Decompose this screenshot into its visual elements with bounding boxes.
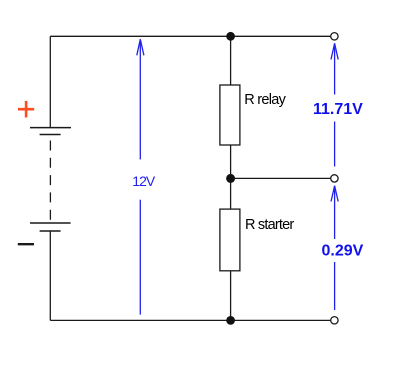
arrow 0.29V shaft lower	[334, 262, 336, 310]
label R starter	[245, 217, 294, 233]
junction dot top node A	[226, 32, 235, 41]
arrow 12V head	[137, 39, 144, 55]
wire left vertical lower (battery - to bottom wire)	[49, 231, 51, 320]
junction dot middle node B	[226, 174, 235, 183]
terminal circle bottom	[331, 317, 338, 324]
arrow 0.29V shaft upper	[334, 186, 336, 239]
junction dot bottom node C	[226, 316, 235, 325]
svg-text:11.71V: 11.71V	[313, 101, 363, 118]
battery B1 cell2 short plate	[40, 230, 61, 232]
svg-text:12V: 12V	[132, 173, 156, 189]
terminal circle middle	[331, 175, 338, 182]
label 0.29V	[322, 243, 364, 260]
svg-text:R relay: R relay	[244, 92, 286, 108]
label 12V	[132, 173, 156, 189]
arrow 12V shaft upper	[139, 39, 141, 159]
wire from R starter down to bottom node	[230, 271, 232, 321]
wire between R relay and R starter (through node B)	[230, 145, 232, 210]
wire top horizontal (battery + to top terminal)	[50, 35, 330, 37]
arrow 11.71V shaft upper	[334, 43, 336, 94]
wire from top node down to R relay	[230, 36, 232, 85]
resistor R starter	[220, 209, 240, 271]
wire bottom horizontal	[50, 319, 330, 321]
label R relay	[244, 92, 286, 108]
battery B1 cell1 short plate	[40, 134, 61, 136]
label 11.71V	[313, 101, 363, 118]
svg-text:R starter: R starter	[245, 217, 294, 233]
wire middle horizontal (node B to middle terminal)	[231, 177, 331, 179]
battery B1 cell2 long plate	[30, 222, 71, 224]
resistor R relay	[220, 85, 240, 145]
arrow 12V shaft lower	[139, 200, 141, 315]
battery B1 positive label +	[18, 101, 34, 118]
battery B1 cell1 long plate	[30, 127, 71, 129]
arrow 11.71V head	[331, 43, 338, 59]
terminal circle top	[331, 33, 338, 40]
arrow 11.71V shaft lower	[334, 122, 336, 167]
wire left vertical upper (top wire to battery +)	[49, 36, 51, 127]
svg-text:0.29V: 0.29V	[322, 243, 364, 260]
battery B1 dashed link (omitted cells)	[49, 141, 51, 220]
battery B1 negative label -	[18, 243, 34, 245]
arrow 0.29V head	[331, 186, 338, 202]
